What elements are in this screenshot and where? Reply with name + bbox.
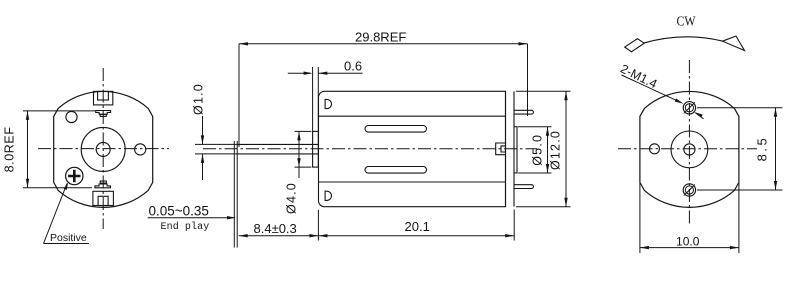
screw hole bottom 2-M1.4 <box>683 184 695 196</box>
svg-text:8.0REF: 8.0REF <box>3 126 17 172</box>
dimension 29.8REF text <box>355 29 406 44</box>
dimension 8.4 line <box>239 234 319 237</box>
dimension 8.0REF line <box>26 111 29 188</box>
positive screw cross <box>68 170 80 182</box>
positive leader line <box>44 182 90 244</box>
end play leader <box>148 216 236 219</box>
crimp notch top <box>325 99 331 108</box>
washer extension up lines <box>313 67 319 131</box>
body step line bottom <box>319 181 506 183</box>
end cap right edge <box>513 91 515 206</box>
dimension 29.8REF line <box>239 42 528 45</box>
crimp notch bottom <box>325 191 331 200</box>
svg-text:Ø4.0: Ø4.0 <box>285 182 299 214</box>
svg-text:8.5: 8.5 <box>755 136 770 162</box>
cap bearing boss <box>514 127 517 173</box>
svg-text:10.0: 10.0 <box>676 235 700 249</box>
positive label text <box>50 232 87 244</box>
CW rotation arc <box>643 37 723 43</box>
dimension dia12.0 line <box>564 91 567 206</box>
dimension dia4.0 extensions <box>295 131 312 167</box>
dimension 20.1 extension right <box>513 210 515 241</box>
dimension 29.8REF extension left <box>238 44 240 147</box>
dimension 0.6 text <box>344 59 362 74</box>
svg-text:Positive: Positive <box>50 232 87 244</box>
dimension dia12.0 extensions <box>516 91 571 206</box>
dimension 20.1 line <box>318 234 514 237</box>
dimension 8.5 extension bottom <box>697 189 783 191</box>
dimension 8.5 extension top <box>697 107 783 109</box>
svg-text:29.8REF: 29.8REF <box>355 29 406 44</box>
left view top terminal inner <box>98 91 109 100</box>
vent slot bottom <box>365 167 427 174</box>
terminal pin top <box>514 110 533 114</box>
svg-text:Ø5.0: Ø5.0 <box>531 134 545 166</box>
dimension dia4.0 text <box>285 182 299 214</box>
svg-text:0.05~0.35: 0.05~0.35 <box>149 204 209 219</box>
motor body side view <box>319 91 506 206</box>
left view top terminal washer <box>96 111 111 115</box>
middle view centerline <box>203 148 537 150</box>
right view vertical centerline <box>688 60 690 226</box>
terminal pin bottom <box>514 185 533 189</box>
CW arrowhead left <box>625 39 645 52</box>
svg-text:0.6: 0.6 <box>344 59 362 74</box>
left view top terminal outer <box>94 91 113 105</box>
end play value text <box>149 204 209 219</box>
dimension dia5.0 line <box>546 127 549 173</box>
right view boss circle <box>671 131 708 168</box>
left view bottom terminal stub <box>100 181 106 183</box>
dimension 29.8REF extension right <box>527 44 529 116</box>
dimension dia5.0 extensions <box>518 127 552 173</box>
snap clip <box>496 143 506 155</box>
left view top-left hole <box>66 111 77 122</box>
end play gap lines <box>234 141 237 248</box>
dimension dia1.0 arrows <box>201 116 204 180</box>
svg-text:CW: CW <box>677 15 697 30</box>
left view horizontal centerline <box>38 148 169 150</box>
left view shaft hole <box>96 142 110 156</box>
left view bottom terminal outer <box>93 191 114 205</box>
dimension dia1.0 extensions <box>195 144 237 154</box>
svg-text:Ø1.0: Ø1.0 <box>192 83 206 115</box>
dimension 8.0REF text <box>3 126 17 172</box>
right view left hole <box>650 144 660 154</box>
svg-text:Ø12.0: Ø12.0 <box>549 130 563 170</box>
svg-text:End play: End play <box>161 221 210 233</box>
end play label text <box>161 221 210 233</box>
dimension 20.1 text <box>405 219 430 234</box>
left view top terminal stub <box>100 114 106 116</box>
end cap line <box>505 91 507 206</box>
body step line top <box>319 115 506 117</box>
right view shaft hole <box>684 144 695 155</box>
svg-text:8.4±0.3: 8.4±0.3 <box>254 221 297 236</box>
CW text <box>677 15 697 30</box>
dimension dia5.0 text <box>531 134 545 166</box>
right view motor body outline <box>640 91 739 207</box>
shaft washer <box>313 131 319 167</box>
body left extension down <box>317 210 319 241</box>
dimension 10.0 text <box>676 235 700 249</box>
dimension dia12.0 text <box>549 130 563 170</box>
dimension 8.5 line <box>774 108 777 190</box>
dimension 8.4 text <box>254 221 297 236</box>
left view center bearing circle <box>81 127 125 171</box>
dimension 10.0 extension left <box>639 182 641 253</box>
right view horizontal centerline <box>618 148 757 150</box>
left view vertical centerline <box>102 68 104 229</box>
positive screw head <box>66 167 83 184</box>
dimension 8.0REF extension top <box>23 110 95 112</box>
dimension dia4.0 line <box>297 131 300 178</box>
shaft outline <box>238 144 319 154</box>
dimension 10.0 extension right <box>738 182 740 253</box>
label 2-M1.4 text <box>618 62 659 92</box>
CW arrowhead right <box>723 36 745 51</box>
label 2-M1.4 leader <box>622 75 704 119</box>
dimension 10.0 line <box>640 246 739 249</box>
left view right hole <box>135 144 146 155</box>
dimension 8.5 text <box>755 136 770 162</box>
vent slot top <box>365 126 427 133</box>
dimension 8.0REF extension bottom <box>23 187 92 189</box>
left view bottom terminal inner <box>98 196 108 205</box>
left view motor body outline <box>54 91 153 207</box>
svg-text:20.1: 20.1 <box>405 219 430 234</box>
screw hole top 2-M1.4 <box>683 102 695 114</box>
dimension dia1.0 text <box>192 83 206 115</box>
dimension 0.6 line <box>288 72 363 75</box>
left view bottom terminal washer <box>95 184 111 188</box>
